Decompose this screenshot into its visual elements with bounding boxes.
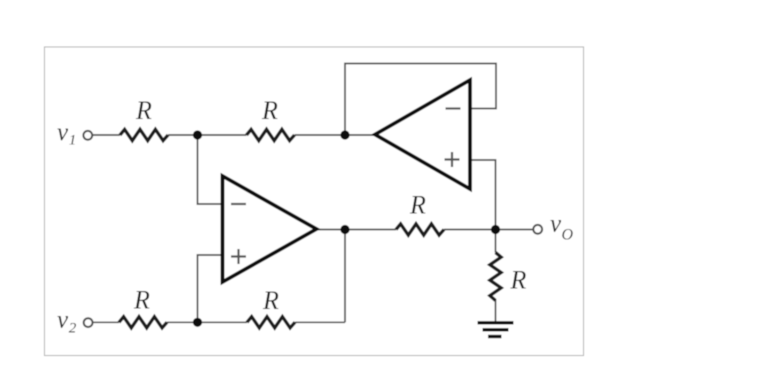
- svg-text:R: R: [510, 266, 527, 295]
- svg-text:v: v: [57, 119, 69, 146]
- svg-text:2: 2: [69, 321, 77, 337]
- svg-text:O: O: [562, 227, 574, 244]
- svg-text:v: v: [57, 306, 69, 333]
- svg-text:R: R: [409, 191, 426, 220]
- svg-text:R: R: [133, 286, 150, 315]
- svg-text:1: 1: [69, 133, 77, 149]
- svg-text:v: v: [550, 211, 562, 238]
- svg-text:R: R: [262, 286, 279, 315]
- svg-text:R: R: [135, 96, 152, 125]
- svg-text:R: R: [261, 96, 278, 125]
